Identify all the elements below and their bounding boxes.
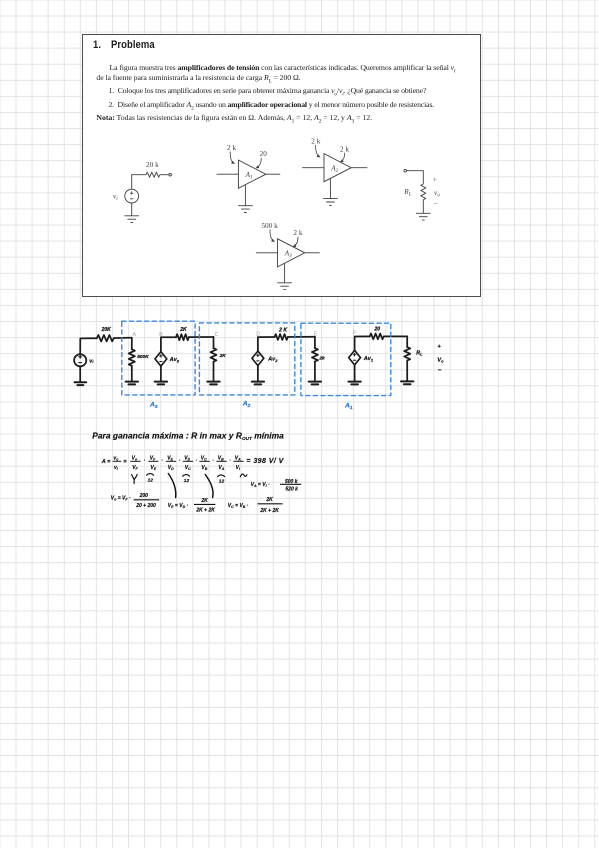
ground wire A1	[244, 185, 246, 206]
ground (Av2)	[252, 382, 264, 385]
dependent source Av1 (hand)	[349, 350, 361, 365]
svg-text:2K: 2K	[219, 353, 227, 359]
wire RL top	[407, 171, 424, 184]
wire Av1 to ground	[354, 365, 356, 381]
curl mark (VA)	[240, 474, 247, 477]
wire source bottom	[131, 203, 133, 216]
wire 2K to node C	[189, 336, 214, 338]
svg-text:2K + 2K: 2K + 2K	[259, 508, 279, 514]
ground (node A)	[126, 382, 138, 385]
resistor 2K (hand, A3 out)	[176, 334, 189, 340]
svg-text:20: 20	[260, 149, 268, 158]
brace 12 (third)	[218, 475, 225, 477]
svg-text:Para ganancia máxima : R in ma: Para ganancia máxima : R in max y ROUT m…	[92, 430, 284, 440]
svg-text:RL: RL	[403, 188, 411, 198]
svg-text:VE: VE	[167, 455, 173, 461]
dashed box A2	[199, 323, 294, 395]
svg-text:·: ·	[161, 458, 163, 464]
svg-text:520 k: 520 k	[285, 487, 298, 493]
svg-text:20: 20	[374, 326, 381, 332]
resistor 20k (series)	[146, 172, 160, 177]
wire resistor to node A	[114, 337, 132, 339]
svg-text:Vo: Vo	[132, 455, 138, 461]
item 1	[109, 87, 427, 96]
resistor 20K (hand, series)	[97, 335, 114, 341]
arrow 2k output	[340, 153, 344, 162]
wire RL to ground	[406, 361, 408, 382]
amplifier A2	[302, 136, 367, 205]
ground (Av1)	[348, 382, 360, 385]
svg-text:VF: VF	[150, 455, 156, 461]
svg-text:VC: VC	[201, 455, 207, 461]
resistor RL (hand)	[404, 347, 410, 360]
svg-text:+: +	[433, 174, 437, 183]
wire Av1 up to node F	[355, 336, 370, 350]
wire 2k E to ground	[314, 362, 316, 382]
dependent source Av3 (hand)	[155, 352, 167, 367]
svg-text:Av1: Av1	[363, 356, 374, 362]
svg-text:Av2: Av2	[267, 357, 278, 363]
svg-text:D: D	[256, 331, 260, 337]
wire RL bottom	[422, 200, 424, 214]
voltage source vi	[125, 189, 139, 203]
svg-text:A3: A3	[284, 250, 292, 259]
triangle A2	[324, 154, 351, 182]
svg-text:Av3: Av3	[169, 357, 180, 363]
svg-text:500K: 500K	[137, 354, 149, 360]
ground (Av3)	[155, 382, 167, 385]
svg-text:2K: 2K	[265, 497, 273, 503]
svg-text:vo: vo	[113, 455, 119, 461]
ground (source)	[75, 382, 87, 385]
paragraph line 1	[110, 64, 456, 73]
wire node A down	[131, 338, 133, 350]
svg-text:2 k: 2 k	[311, 136, 320, 145]
wire source to ground	[79, 366, 81, 382]
input wire	[302, 167, 324, 169]
fraction VA/Vi	[233, 455, 243, 471]
svg-text:A3: A3	[149, 402, 158, 411]
dependent source Av2 (hand)	[252, 351, 264, 366]
fraction VC/VB	[199, 455, 209, 471]
dashed box A3	[122, 321, 195, 395]
resistor 2K (hand, A2 in)	[211, 348, 217, 361]
resistor 500K (hand, shunt)	[129, 349, 135, 366]
fraction VD/VC	[183, 455, 193, 471]
triangle A3	[278, 239, 305, 267]
svg-text:·: ·	[212, 458, 214, 464]
svg-text:= 398 V/ V: = 398 V/ V	[246, 458, 284, 465]
output wire	[266, 173, 280, 175]
wire RL top	[406, 336, 408, 347]
amplifier A1	[217, 143, 281, 213]
svg-text:2K + 2K: 2K + 2K	[195, 508, 215, 514]
svg-text:VE = VD ·: VE = VD ·	[168, 503, 189, 509]
svg-text:VC: VC	[185, 465, 191, 471]
fraction Vo/VF	[130, 455, 140, 471]
svg-text:A1: A1	[344, 403, 353, 412]
resistor 2k (hand, A1 in)	[312, 348, 318, 361]
svg-text:Vo: Vo	[437, 357, 444, 363]
svg-text:Vi: Vi	[236, 465, 241, 471]
paragraph line 2	[96, 74, 300, 83]
fraction VB/VA	[216, 455, 226, 471]
formula Vo = VF * 200/(20+200)	[111, 493, 159, 509]
svg-text:2 K: 2 K	[278, 327, 288, 333]
svg-text:200: 200	[139, 493, 149, 499]
svg-text:·: ·	[179, 458, 181, 464]
wire Av2 up to node D	[258, 337, 275, 351]
svg-text:12: 12	[148, 477, 154, 483]
wire node C down	[213, 337, 215, 348]
ground (node E)	[309, 382, 321, 385]
arrow 2k output	[293, 237, 298, 247]
nota	[96, 114, 372, 123]
svg-text:VC = VB ·: VC = VB ·	[228, 503, 249, 509]
load RL	[403, 169, 440, 220]
fraction VF/VE	[148, 455, 158, 471]
open terminal RL	[404, 169, 407, 172]
open terminal	[169, 173, 172, 176]
resistor 20 (hand, A1 out)	[370, 334, 384, 340]
svg-text:−: −	[433, 198, 437, 207]
wire Av2 to ground	[257, 366, 259, 382]
wire source to resistor	[80, 338, 97, 354]
svg-text:12: 12	[219, 478, 225, 484]
arrow 2k input	[316, 145, 320, 157]
svg-text:A1: A1	[245, 171, 253, 180]
wire 2K C to ground	[213, 362, 215, 382]
brace 12 (second)	[183, 475, 190, 477]
triangle A1	[238, 160, 266, 188]
svg-text:12: 12	[184, 478, 190, 484]
output wire	[351, 167, 367, 169]
svg-text:A: A	[133, 332, 137, 338]
svg-text:20 k: 20 k	[146, 160, 159, 169]
svg-text:500 k: 500 k	[261, 221, 278, 230]
svg-text:RL: RL	[416, 351, 423, 357]
svg-text:=: =	[123, 459, 127, 465]
svg-text:A2: A2	[330, 165, 338, 174]
svg-text:2 k: 2 k	[340, 144, 349, 153]
svg-text:vi: vi	[114, 465, 119, 471]
arrow 2k to input	[230, 152, 234, 164]
svg-text:·: ·	[196, 458, 198, 464]
svg-text:Vo = VF ·: Vo = VF ·	[111, 496, 131, 502]
swoosh arrow 2	[205, 475, 213, 498]
svg-text:–: –	[438, 368, 442, 374]
fraction VE/VD	[166, 455, 176, 471]
svg-text:VA: VA	[218, 465, 224, 471]
input wire	[217, 173, 239, 175]
ground (RL)	[401, 381, 413, 384]
ground A1	[238, 206, 253, 213]
ground (node C)	[207, 382, 219, 385]
brace 12 (first)	[147, 474, 154, 476]
ground (source)	[124, 216, 139, 223]
svg-text:2K: 2K	[179, 327, 187, 333]
wire 500K to ground	[131, 366, 133, 381]
dashed box A1	[301, 323, 391, 395]
ground A3	[277, 283, 292, 290]
ground RL	[416, 213, 431, 220]
svg-text:20 + 200: 20 + 200	[135, 503, 156, 509]
svg-text:vi: vi	[113, 193, 118, 203]
resistor 2K (hand, A2 out)	[275, 334, 288, 340]
svg-text:VA: VA	[235, 455, 241, 461]
source vi (hand)	[74, 354, 86, 366]
ground wire A2	[329, 178, 331, 198]
svg-text:2k: 2k	[318, 355, 325, 361]
wire Av3 up to node B	[161, 337, 176, 351]
ground A2	[323, 199, 338, 206]
svg-text:·: ·	[144, 458, 146, 464]
resistor RL (vertical zigzag)	[421, 184, 426, 200]
svg-text:vi: vi	[89, 358, 94, 364]
input wire	[256, 252, 278, 254]
wire source top	[132, 175, 146, 190]
svg-text:VA = Vi ·: VA = Vi ·	[251, 482, 270, 488]
wire 20 to RL	[384, 335, 407, 337]
output wire	[305, 252, 320, 254]
wire 2K to node E	[288, 336, 315, 338]
svg-text:A2: A2	[242, 401, 251, 410]
wire node E down	[314, 337, 316, 348]
wire Av3 to ground	[160, 366, 162, 381]
wire to terminal	[160, 174, 169, 176]
svg-text:VF: VF	[132, 465, 138, 471]
svg-text:VE: VE	[150, 465, 156, 471]
cancel mark Y (VF pair)	[132, 475, 138, 484]
section title	[93, 39, 155, 52]
svg-text:VB: VB	[218, 455, 224, 461]
fraction vo/vi	[113, 455, 122, 471]
svg-text:vo: vo	[434, 189, 440, 199]
svg-text:VB: VB	[201, 465, 207, 471]
svg-text:2 k: 2 k	[293, 228, 302, 237]
svg-text:+: +	[438, 344, 441, 350]
svg-text:2K: 2K	[200, 498, 208, 504]
svg-text:F: F	[353, 331, 356, 337]
arrow 20 to output	[256, 158, 261, 168]
svg-text:·: ·	[229, 458, 231, 464]
svg-text:20K: 20K	[101, 327, 112, 333]
svg-text:VD: VD	[168, 465, 174, 471]
formula VA = Vi * 500k/520k	[251, 479, 302, 493]
svg-text:VD: VD	[184, 455, 190, 461]
svg-text:2 k: 2 k	[227, 143, 236, 152]
item 2	[109, 101, 435, 110]
formula VE = VD * 2K/(2K+2K)	[168, 498, 216, 514]
amplifier A3	[256, 221, 320, 290]
formula VC = VB * 2k/(2k+2k)	[228, 497, 283, 514]
svg-text:A =: A =	[101, 459, 111, 465]
arrow 500k input	[270, 230, 275, 242]
svg-text:C: C	[215, 332, 219, 338]
equation A = vo/vi = product of fractions	[101, 455, 285, 471]
swoosh arrow 1	[168, 474, 176, 498]
ground wire A3	[284, 263, 286, 283]
